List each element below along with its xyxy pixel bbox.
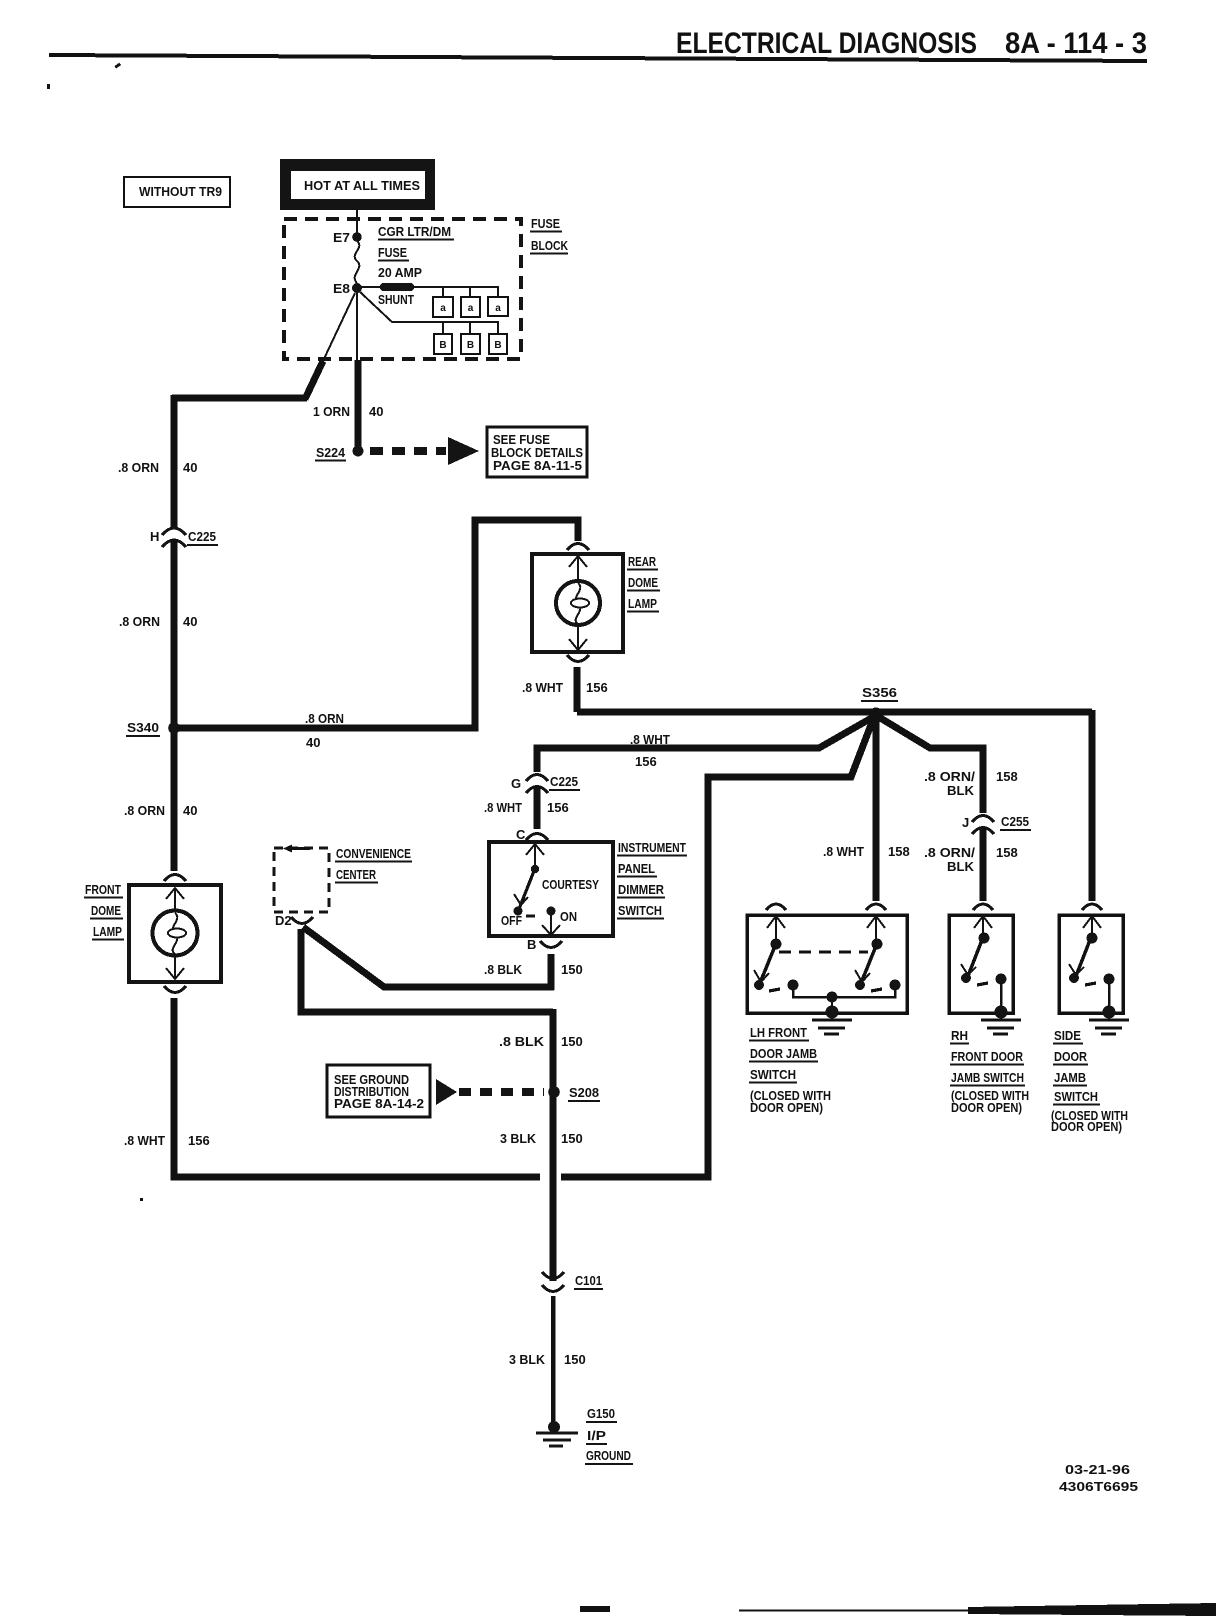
svg-text:E7: E7 — [333, 230, 350, 245]
svg-text:LAMP: LAMP — [93, 924, 122, 939]
svg-text:DOOR OPEN): DOOR OPEN) — [951, 1100, 1022, 1115]
svg-text:C225: C225 — [188, 529, 216, 544]
svg-text:FRONT DOOR: FRONT DOOR — [951, 1049, 1023, 1064]
svg-text:B: B — [494, 340, 501, 351]
svg-text:4306T6695: 4306T6695 — [1059, 1479, 1138, 1494]
svg-text:COURTESY: COURTESY — [542, 877, 599, 892]
svg-text:S340: S340 — [127, 720, 159, 735]
svg-text:S224: S224 — [316, 445, 346, 460]
svg-text:.8 ORN: .8 ORN — [124, 803, 165, 818]
svg-text:C225: C225 — [550, 774, 578, 789]
svg-text:ELECTRICAL DIAGNOSIS: ELECTRICAL DIAGNOSIS — [676, 27, 977, 60]
svg-text:DOOR: DOOR — [1054, 1049, 1088, 1064]
svg-text:SWITCH: SWITCH — [1054, 1089, 1098, 1104]
svg-text:DOME: DOME — [91, 903, 121, 918]
svg-text:DOOR JAMB: DOOR JAMB — [750, 1046, 817, 1061]
svg-text:DOME: DOME — [628, 575, 658, 590]
svg-text:BLK: BLK — [947, 783, 975, 798]
svg-text:03-21-96: 03-21-96 — [1065, 1462, 1130, 1477]
svg-text:40: 40 — [183, 614, 197, 629]
svg-text:40: 40 — [369, 404, 383, 419]
svg-text:E8: E8 — [333, 281, 350, 296]
svg-text:a: a — [495, 303, 501, 314]
svg-text:40: 40 — [183, 803, 197, 818]
svg-text:S208: S208 — [569, 1085, 599, 1100]
svg-text:.8 ORN: .8 ORN — [118, 460, 159, 475]
svg-text:158: 158 — [888, 844, 910, 859]
svg-text:J: J — [962, 815, 969, 830]
svg-text:40: 40 — [183, 460, 197, 475]
svg-text:LH FRONT: LH FRONT — [750, 1025, 807, 1040]
svg-text:156: 156 — [635, 754, 657, 769]
svg-text:.8 BLK: .8 BLK — [484, 962, 523, 977]
svg-text:158: 158 — [996, 845, 1018, 860]
svg-text:S356: S356 — [862, 685, 897, 700]
svg-text:JAMB SWITCH: JAMB SWITCH — [951, 1070, 1024, 1085]
svg-text:B: B — [527, 937, 536, 952]
svg-text:OFF: OFF — [501, 913, 522, 928]
svg-text:PAGE 8A-14-2: PAGE 8A-14-2 — [334, 1096, 424, 1111]
svg-text:.8 BLK: .8 BLK — [499, 1034, 545, 1049]
svg-text:SIDE: SIDE — [1054, 1028, 1081, 1043]
svg-text:PAGE 8A-11-5: PAGE 8A-11-5 — [493, 458, 582, 473]
svg-text:DIMMER: DIMMER — [618, 882, 665, 897]
svg-text:.8 WHT: .8 WHT — [630, 732, 670, 747]
svg-text:158: 158 — [996, 769, 1018, 784]
svg-text:H: H — [150, 529, 159, 544]
svg-text:.8 WHT: .8 WHT — [823, 844, 864, 859]
svg-text:DOOR OPEN): DOOR OPEN) — [1051, 1119, 1122, 1134]
svg-text:G150: G150 — [587, 1406, 615, 1421]
svg-text:20 AMP: 20 AMP — [378, 265, 422, 280]
svg-text:a: a — [440, 303, 446, 314]
svg-text:156: 156 — [547, 800, 569, 815]
svg-text:B: B — [439, 340, 446, 351]
svg-text:I/P: I/P — [587, 1428, 606, 1443]
svg-text:3 BLK: 3 BLK — [509, 1352, 546, 1367]
svg-text:B: B — [467, 340, 474, 351]
svg-text:150: 150 — [564, 1352, 586, 1367]
svg-text:150: 150 — [561, 962, 583, 977]
svg-text:PANEL: PANEL — [618, 861, 655, 876]
svg-text:.8 WHT: .8 WHT — [522, 680, 563, 695]
svg-text:JAMB: JAMB — [1054, 1070, 1086, 1085]
svg-text:SHUNT: SHUNT — [378, 292, 414, 307]
svg-text:.8 ORN/: .8 ORN/ — [924, 845, 975, 860]
svg-text:LAMP: LAMP — [628, 596, 657, 611]
svg-text:8A - 114 - 3: 8A - 114 - 3 — [1005, 27, 1147, 60]
svg-text:150: 150 — [561, 1131, 583, 1146]
svg-text:INSTRUMENT: INSTRUMENT — [618, 840, 686, 855]
svg-text:156: 156 — [188, 1133, 210, 1148]
svg-text:FRONT: FRONT — [85, 882, 121, 897]
svg-text:ON: ON — [560, 909, 577, 924]
svg-text:DOOR OPEN): DOOR OPEN) — [750, 1100, 823, 1115]
svg-text:BLK: BLK — [947, 859, 975, 874]
svg-text:SWITCH: SWITCH — [750, 1067, 796, 1082]
svg-text:CONVENIENCE: CONVENIENCE — [336, 846, 411, 861]
svg-text:D2: D2 — [275, 913, 292, 928]
svg-text:1 ORN: 1 ORN — [313, 404, 350, 419]
svg-text:a: a — [468, 303, 474, 314]
svg-text:RH: RH — [951, 1028, 968, 1043]
svg-text:WITHOUT TR9: WITHOUT TR9 — [139, 184, 222, 199]
svg-text:156: 156 — [586, 680, 608, 695]
svg-text:C255: C255 — [1001, 814, 1029, 829]
svg-text:40: 40 — [306, 735, 320, 750]
svg-text:3 BLK: 3 BLK — [500, 1131, 537, 1146]
svg-text:GROUND: GROUND — [586, 1448, 631, 1463]
svg-text:FUSE: FUSE — [378, 245, 407, 260]
svg-text:HOT AT ALL TIMES: HOT AT ALL TIMES — [304, 178, 420, 193]
svg-text:.8 ORN/: .8 ORN/ — [924, 769, 975, 784]
svg-text:CGR LTR/DM: CGR LTR/DM — [378, 224, 451, 239]
svg-text:.8 ORN: .8 ORN — [119, 614, 160, 629]
svg-text:SWITCH: SWITCH — [618, 903, 662, 918]
svg-text:BLOCK: BLOCK — [531, 238, 568, 253]
svg-text:.8 ORN: .8 ORN — [305, 711, 344, 726]
svg-text:REAR: REAR — [628, 554, 656, 569]
svg-text:C: C — [516, 827, 526, 842]
svg-text:.8 WHT: .8 WHT — [124, 1133, 165, 1148]
svg-text:.8 WHT: .8 WHT — [484, 800, 522, 815]
svg-text:CENTER: CENTER — [336, 867, 376, 882]
svg-text:150: 150 — [561, 1034, 583, 1049]
svg-text:FUSE: FUSE — [531, 216, 560, 231]
svg-text:C101: C101 — [575, 1273, 602, 1288]
svg-text:G: G — [511, 776, 521, 791]
